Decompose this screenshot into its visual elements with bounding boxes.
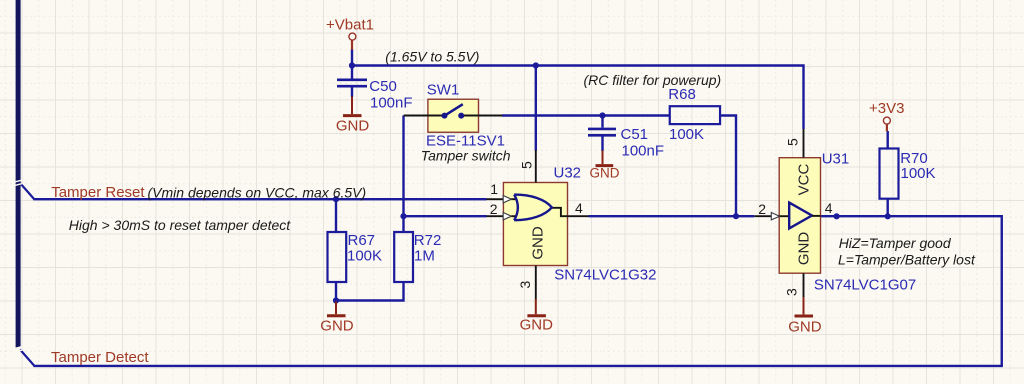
svg-text:High > 30mS to reset tamper de: High > 30mS to reset tamper detect [69, 217, 291, 233]
svg-text:100K: 100K [669, 126, 704, 143]
svg-text:Tamper Reset: Tamper Reset [51, 184, 145, 201]
svg-text:GND: GND [320, 317, 354, 334]
svg-text:SN74LVC1G32: SN74LVC1G32 [554, 267, 656, 284]
svg-text:2: 2 [490, 201, 498, 217]
svg-text:100K: 100K [347, 248, 382, 265]
svg-text:Tamper Detect: Tamper Detect [51, 349, 149, 366]
svg-text:100nF: 100nF [622, 143, 665, 160]
svg-text:GND: GND [336, 117, 370, 134]
svg-text:(Vmin depends on VCC, max 6.5V: (Vmin depends on VCC, max 6.5V) [148, 184, 367, 200]
svg-text:GND: GND [796, 232, 813, 266]
svg-text:1M: 1M [414, 248, 435, 265]
svg-text:5: 5 [785, 138, 801, 146]
svg-text:SN74LVC1G07: SN74LVC1G07 [814, 277, 916, 294]
svg-text:C51: C51 [621, 126, 649, 143]
svg-text:+Vbat1: +Vbat1 [326, 17, 374, 34]
svg-text:100nF: 100nF [370, 94, 413, 111]
svg-text:+3V3: +3V3 [869, 100, 904, 117]
svg-text:4: 4 [825, 200, 833, 216]
svg-text:5: 5 [519, 161, 535, 169]
svg-text:U32: U32 [554, 165, 582, 182]
svg-text:U31: U31 [822, 150, 850, 167]
svg-text:100K: 100K [901, 165, 936, 182]
svg-text:1: 1 [490, 181, 498, 197]
svg-text:HiZ=Tamper good: HiZ=Tamper good [839, 235, 952, 251]
svg-text:(1.65V to 5.5V): (1.65V to 5.5V) [385, 48, 479, 64]
svg-text:R72: R72 [414, 232, 442, 249]
svg-text:GND: GND [788, 319, 822, 336]
svg-text:GND: GND [590, 165, 620, 180]
svg-text:SW1: SW1 [427, 81, 460, 98]
svg-text:C50: C50 [369, 78, 397, 95]
svg-text:2: 2 [758, 201, 766, 217]
svg-text:GND: GND [530, 226, 547, 260]
svg-text:(RC filter for powerup): (RC filter for powerup) [584, 72, 722, 88]
svg-text:VCC: VCC [796, 163, 813, 195]
svg-text:R68: R68 [668, 86, 696, 103]
svg-text:3: 3 [517, 281, 533, 289]
svg-text:GND: GND [520, 317, 554, 334]
svg-text:R67: R67 [348, 232, 376, 249]
svg-text:Tamper switch: Tamper switch [421, 147, 511, 163]
svg-text:4: 4 [575, 200, 583, 216]
svg-text:3: 3 [784, 288, 800, 296]
svg-text:L=Tamper/Battery lost: L=Tamper/Battery lost [838, 251, 976, 267]
